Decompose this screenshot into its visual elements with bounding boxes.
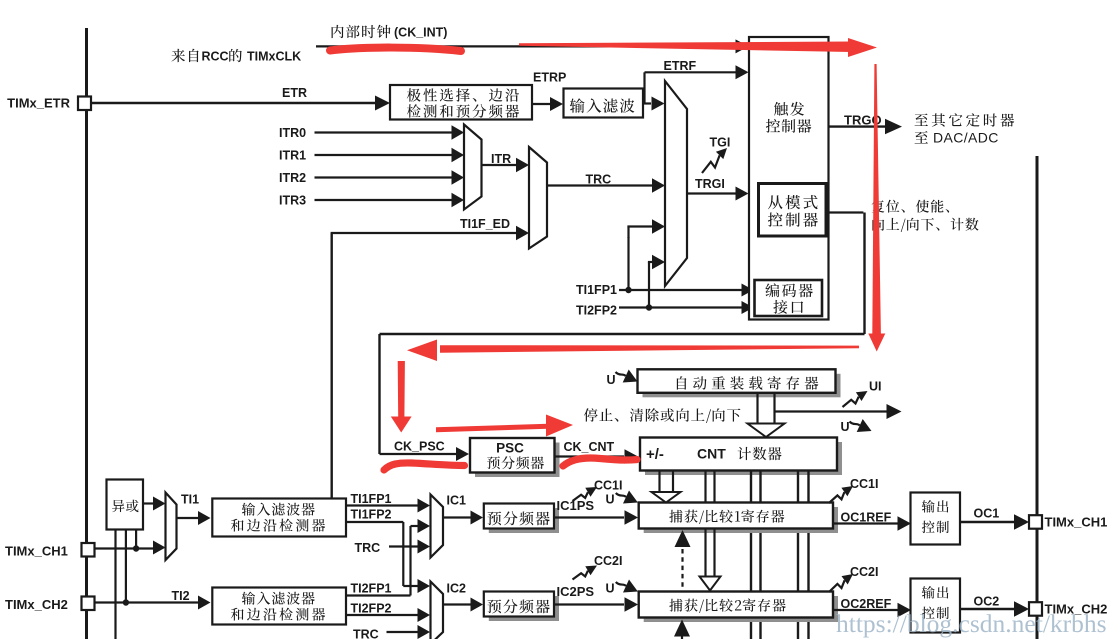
- svg-text:CC2I: CC2I: [594, 554, 622, 568]
- svg-text:OC2: OC2: [974, 595, 1000, 609]
- wire TRGO: [829, 125, 887, 127]
- box CNT counter: [645, 442, 842, 475]
- dashed arrow below capture2: [681, 636, 683, 639]
- svg-text:ETRP: ETRP: [533, 71, 566, 85]
- interrupt symbol CC1I left: [573, 492, 588, 501]
- red marker underline CK_INT: [330, 48, 461, 51]
- wire ITR2: [315, 176, 453, 178]
- svg-text:TI1FP2: TI1FP2: [351, 508, 392, 522]
- box capture compare register 2: [644, 596, 838, 622]
- svg-text:TIMx_CH1: TIMx_CH1: [1045, 515, 1108, 530]
- wire TIMx_CH1 to TI1 mux: [94, 547, 154, 549]
- svg-text:TI2FP2: TI2FP2: [351, 602, 392, 616]
- wire slave mode feedback to prescaler CK_PSC: [825, 211, 863, 213]
- svg-text:CC1I: CC1I: [594, 479, 622, 493]
- interrupt symbol TGI: [702, 155, 720, 173]
- wire OC2REF: [833, 609, 898, 611]
- label to other timers to DAC/ADC: [915, 113, 1015, 126]
- svg-text:PSC: PSC: [496, 441, 524, 456]
- box input filter ETR: [564, 89, 644, 118]
- pin TIMx_CH2 square left: [82, 597, 95, 611]
- wire CK_INT internal clock line: [316, 45, 737, 47]
- svg-text:CNT: CNT: [697, 446, 726, 462]
- wire ITR3: [315, 199, 453, 201]
- hollow arrow auto-reload to CNT: [756, 394, 758, 425]
- wire TI1: [177, 517, 199, 519]
- wire OC1: [960, 521, 1014, 523]
- wire TI2FP2 to IC2 mux: [346, 614, 418, 616]
- wire IC2PS to capture register 2: [554, 603, 624, 605]
- box input filter edge detector TI1: [212, 499, 346, 537]
- wire ETR: [91, 102, 377, 104]
- mux IC2 selector: [431, 582, 444, 639]
- interrupt symbol UI: [843, 397, 859, 407]
- wire OC2: [960, 608, 1014, 610]
- mux TI1 selector: [166, 493, 177, 561]
- label 内部时钟 (CK_INT): [332, 25, 391, 38]
- red marker squiggle under CK_CNT: [563, 458, 637, 466]
- box output control 1: [911, 493, 961, 545]
- svg-text:RCC: RCC: [202, 50, 229, 64]
- wire right channel bus vertical: [1036, 156, 1039, 639]
- mux TRC selector trapezoid: [529, 147, 547, 249]
- svg-text:ITR1: ITR1: [279, 149, 306, 163]
- svg-text:TI1FP1: TI1FP1: [351, 492, 392, 506]
- svg-text:TIMx_CH2: TIMx_CH2: [5, 597, 68, 612]
- svg-text:IC2PS: IC2PS: [557, 584, 595, 599]
- wire XOR input legs: [114, 530, 116, 639]
- hollow arrow CNT through capture1 to capture2: [704, 471, 706, 503]
- interrupt symbol CC2I left: [573, 571, 588, 580]
- box XOR 异或: [107, 480, 144, 530]
- hollow arrow CNT to capture1: [658, 471, 660, 494]
- svg-text:IC1PS: IC1PS: [557, 498, 595, 513]
- svg-text:ETRF: ETRF: [664, 59, 697, 73]
- svg-text:U: U: [607, 373, 616, 387]
- svg-text:ETR: ETR: [282, 86, 307, 100]
- red marker arrow right to CK_CNT: [436, 424, 548, 432]
- red marker arrow right over trigger: [519, 42, 851, 53]
- svg-text:TIMxCLK: TIMxCLK: [247, 50, 301, 64]
- wire IC1 to prescaler: [443, 516, 471, 518]
- wire TRGI: [687, 192, 737, 194]
- box output control 2: [911, 579, 961, 633]
- svg-text:CK_CNT: CK_CNT: [564, 440, 615, 454]
- svg-text:OC1: OC1: [974, 507, 1000, 521]
- svg-text:TIMx_ETR: TIMx_ETR: [7, 96, 70, 111]
- wire TI2FP2 to encoder and trigger mux: [619, 306, 742, 308]
- wire TI1F_ED from TI1 filter riser: [331, 233, 333, 499]
- svg-text:U: U: [606, 582, 615, 596]
- svg-text:ITR3: ITR3: [279, 194, 306, 208]
- svg-text:TRC: TRC: [355, 541, 381, 555]
- wire TRC to trigger mux: [547, 184, 653, 186]
- box polarity selection edge detector prescaler: [390, 85, 532, 120]
- pin TIMx_CH1 square left: [82, 543, 95, 557]
- bus lines CNT down behind capture registers pair C: [797, 471, 799, 639]
- svg-text:ITR2: ITR2: [279, 171, 306, 185]
- box encoder interface: [755, 280, 823, 316]
- svg-text:TRC: TRC: [586, 173, 612, 187]
- svg-text:CC1I: CC1I: [850, 477, 878, 491]
- wire ITR: [482, 164, 518, 166]
- interrupt symbol CC2I right: [829, 580, 845, 592]
- wire left pin bus vertical: [85, 28, 88, 639]
- wire ETRP to input filter: [532, 103, 550, 105]
- box input filter edge detector TI2: [212, 588, 346, 625]
- svg-text:UI: UI: [869, 380, 882, 394]
- svg-text:TI1F_ED: TI1F_ED: [460, 217, 510, 231]
- svg-text:CC2I: CC2I: [850, 565, 878, 579]
- interrupt symbol CC1I right: [829, 492, 844, 503]
- svg-text:https://blog.csdn.net/krbhs: https://blog.csdn.net/krbhs: [836, 609, 1107, 638]
- svg-text:IC1: IC1: [447, 494, 467, 508]
- pin TIMx_ETR square: [78, 97, 91, 111]
- svg-text:TI1FP1: TI1FP1: [576, 283, 617, 297]
- mux IC1 selector: [431, 495, 444, 558]
- red marker arrow down to CK_PSC: [398, 361, 405, 417]
- pin TIMx_CH2 square right: [1029, 602, 1042, 616]
- svg-text:IC2: IC2: [447, 582, 467, 596]
- wire TRC to IC1 mux: [389, 545, 418, 547]
- mux ITR selector trapezoid: [464, 125, 482, 210]
- svg-text:ITR: ITR: [491, 152, 511, 166]
- wire U event UI line: [776, 410, 888, 412]
- box prescaler IC1: [489, 508, 559, 533]
- red marker arrow left feedback: [440, 345, 859, 353]
- box auto-reload register: [643, 374, 841, 398]
- svg-text:TI2FP1: TI2FP1: [351, 582, 392, 596]
- svg-text:TRGI: TRGI: [695, 177, 725, 191]
- label reset enable up/down count: [872, 200, 949, 213]
- svg-text:U: U: [841, 420, 850, 434]
- wire IC1PS to capture register 1: [554, 516, 624, 518]
- box capture compare register 1: [644, 507, 838, 533]
- wire OC1REF: [833, 522, 898, 524]
- svg-text:(CK_INT): (CK_INT): [394, 26, 447, 40]
- svg-text:TI1: TI1: [181, 493, 199, 507]
- svg-text:U: U: [606, 493, 615, 507]
- svg-text:TGI: TGI: [710, 136, 731, 150]
- wire CK_CNT: [555, 455, 625, 457]
- red marker arrow down right side: [872, 64, 881, 334]
- svg-text:TRC: TRC: [353, 628, 379, 639]
- box PSC prescaler: [475, 443, 560, 478]
- svg-text:TI2FP2: TI2FP2: [576, 304, 617, 318]
- bus lines CNT down behind capture registers pair B: [750, 471, 752, 639]
- wire XOR output to TI1 mux: [143, 502, 154, 504]
- svg-text:DAC/ADC: DAC/ADC: [933, 130, 999, 146]
- wire ITR0: [315, 131, 453, 133]
- pin TIMx_CH1 square right: [1029, 515, 1042, 529]
- red marker squiggle under CK_PSC: [384, 463, 465, 470]
- box trigger controller: [749, 37, 829, 320]
- wire ITR1: [315, 154, 453, 156]
- mux trigger input selector trapezoid: [665, 81, 687, 286]
- svg-text:OC1REF: OC1REF: [841, 511, 892, 525]
- dashed arrow capture2 to capture1: [681, 549, 683, 591]
- svg-text:TIMx_CH1: TIMx_CH1: [5, 544, 68, 559]
- svg-text:TI2: TI2: [172, 589, 190, 603]
- box slave mode controller: [759, 184, 827, 237]
- wire TI1FP1 to encoder and trigger mux: [619, 289, 742, 291]
- svg-text:+/-: +/-: [646, 446, 664, 463]
- wire IC2 to prescaler: [443, 603, 471, 605]
- wire TI2FP1 crossover to IC1 mux: [346, 594, 411, 596]
- wire ETRF branch: [643, 102, 651, 104]
- box prescaler IC2: [489, 596, 559, 621]
- wire TI1FP1 to IC1 mux: [346, 504, 418, 506]
- wire TRC to IC2 mux: [387, 631, 419, 633]
- wire TI2: [94, 601, 198, 603]
- label 来自RCC的TIMxCLK: [171, 49, 198, 62]
- label stop clear up/down: [584, 408, 741, 423]
- wire TI1FP2 crossover to IC2 mux: [346, 521, 403, 523]
- svg-text:CK_PSC: CK_PSC: [394, 440, 445, 454]
- svg-text:ITR0: ITR0: [279, 126, 306, 140]
